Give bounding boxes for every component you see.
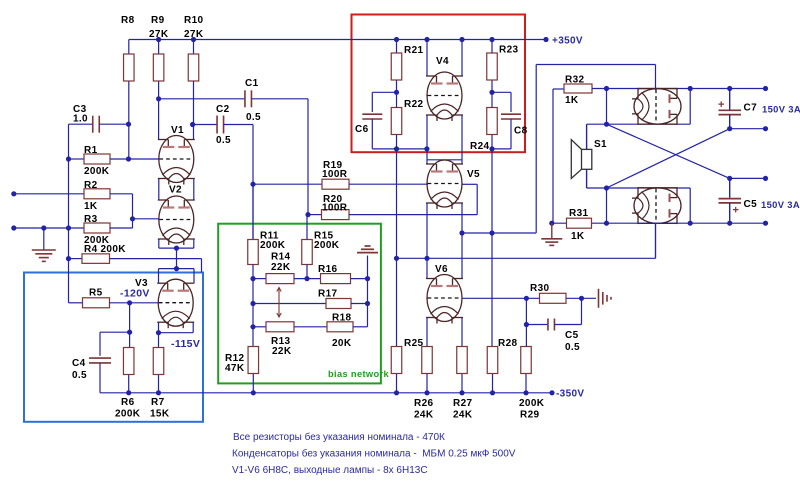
svg-text:R3: R3: [84, 214, 98, 225]
capacitor C1 plates: [244, 90, 246, 107]
resistor R22 body: [391, 108, 402, 135]
node R19 left / C2: [250, 182, 255, 187]
resistor R17 body: [326, 299, 351, 309]
wire R19 right to V5 grid: [349, 183, 428, 185]
svg-text:C5: C5: [744, 199, 758, 210]
wire R28 bottom lead: [492, 374, 494, 393]
wire lower grid exit: [655, 223, 657, 258]
node R24 net cross: [489, 230, 494, 235]
resistor R31 body: [567, 218, 592, 228]
node R12 bottom: [251, 390, 256, 395]
svg-text:+: +: [733, 205, 740, 217]
wire V5 anode junction line: [427, 159, 462, 161]
svg-text:R9: R9: [151, 15, 165, 26]
svg-text:15K: 15K: [150, 409, 170, 420]
resistor R19 body: [322, 179, 349, 189]
svg-text:R2: R2: [84, 180, 98, 191]
wire V3 top rails: [158, 269, 160, 284]
wire R14 left: [253, 278, 266, 280]
resistor R21 body: [391, 53, 402, 80]
node X bottom-left: [604, 185, 609, 190]
capacitor C7: [718, 89, 741, 129]
wire R11 bottom: [252, 265, 254, 279]
svg-text:C7: C7: [744, 103, 758, 114]
node anode bottom: [688, 221, 693, 226]
wire R30 left vertical: [525, 298, 527, 346]
svg-text:200K: 200K: [260, 240, 286, 251]
svg-text:1K: 1K: [565, 95, 579, 106]
wire R23 top: [491, 40, 493, 54]
resistor R16 body: [321, 274, 351, 284]
svg-text:24K: 24K: [414, 410, 434, 421]
node R30 right: [579, 296, 584, 301]
svg-text:-120V: -120V: [120, 288, 150, 300]
svg-text:R24: R24: [470, 141, 489, 152]
resistor R1 body: [84, 154, 110, 164]
node R5 right: [127, 300, 132, 305]
wire X diagonal 1: [607, 124, 730, 178]
wire speaker bottom vert: [606, 188, 608, 223]
svg-text:R30: R30: [530, 283, 549, 294]
wire R5 node vertical: [129, 303, 131, 348]
resistor R4 body: [82, 254, 110, 264]
wire V2-V3 link: [176, 248, 178, 269]
svg-text:V1-V6 6Н8С, выходные лампы - 8: V1-V6 6Н8С, выходные лампы - 8х 6Н13С: [232, 465, 428, 476]
svg-text:C1: C1: [245, 78, 259, 89]
wire R7 bottom: [158, 375, 160, 393]
svg-text:+350V: +350V: [552, 36, 583, 47]
node R20 left / C1: [305, 212, 310, 217]
resistor R10 body: [188, 54, 199, 81]
resistor R6 body: [123, 348, 134, 375]
wire R5 right to V3 grid: [110, 302, 159, 304]
ground input: [43, 228, 45, 250]
node R24 bottom: [489, 146, 494, 151]
svg-text:V2: V2: [169, 185, 182, 196]
resistor R18 body: [327, 322, 353, 332]
node R7 bottom: [156, 390, 161, 395]
node C7 top: [727, 86, 732, 91]
svg-text:0.5: 0.5: [565, 342, 580, 353]
node V4 right rail top: [459, 37, 464, 42]
svg-text:27K: 27K: [184, 29, 204, 40]
wire R1 right to V1 grid: [110, 158, 159, 160]
wire R10 bottom lead: [193, 82, 195, 140]
wire C8 bottom: [510, 119, 512, 149]
svg-text:0.5: 0.5: [216, 135, 231, 146]
wire C6 top jog: [372, 91, 396, 93]
wire V4 top rails: [426, 40, 428, 77]
wire V6 bottom rails: [426, 318, 428, 347]
wire R22 bottom: [396, 135, 398, 149]
node R10 top: [191, 37, 196, 42]
resistor R8 body: [124, 54, 135, 81]
tube V1: [158, 136, 195, 185]
svg-text:R31: R31: [569, 208, 588, 219]
svg-text:R7: R7: [151, 397, 165, 408]
node C5out top: [727, 176, 732, 181]
resistor R30 body: [540, 293, 567, 303]
wire V4-V5 ladder: [426, 115, 428, 164]
node C2/R10: [190, 122, 195, 127]
wire R24 bottom: [491, 135, 493, 149]
svg-text:1.0: 1.0: [73, 114, 88, 125]
resistor R12 body: [248, 347, 258, 374]
wire V1-V2 ladder right: [193, 179, 195, 201]
node V2 cathode: [174, 246, 179, 251]
svg-text:100R: 100R: [322, 202, 348, 213]
node anode top: [688, 86, 693, 91]
wire bias vertical R13 leg: [252, 279, 254, 347]
tube V4: [426, 72, 463, 121]
capacitor C5 plates: [547, 319, 549, 331]
terminal -350V: [549, 390, 554, 395]
terminal input 1: [11, 191, 16, 196]
wire R15 bottom: [306, 265, 308, 279]
green box bias network: [218, 224, 381, 384]
wire C6 bottom: [371, 119, 373, 149]
svg-text:0.5: 0.5: [72, 370, 87, 381]
wire upper drive: [462, 232, 536, 234]
svg-text:0.5: 0.5: [246, 112, 261, 123]
wire R17 right: [351, 303, 368, 305]
svg-text:R23: R23: [499, 45, 518, 56]
node left ladder y258 tap: [424, 256, 429, 261]
svg-text:R22: R22: [404, 99, 423, 110]
wire lower anode right: [689, 188, 691, 223]
node V4 left rail top: [424, 37, 429, 42]
node C1 tap on R9 lead: [156, 96, 161, 101]
node R15/R14/R16: [304, 276, 309, 281]
wire out line2: [730, 128, 766, 130]
capacitor C4 plates: [89, 357, 111, 359]
node R23/R24 C8 tap: [489, 90, 494, 95]
svg-text:Конденсаторы без указания номи: Конденсаторы без указания номинала - МБМ…: [232, 448, 516, 460]
svg-text:47K: 47K: [225, 363, 245, 374]
svg-text:R26: R26: [414, 398, 433, 409]
svg-text:27K: 27K: [149, 29, 169, 40]
wire bottom rail right: [552, 222, 766, 224]
wire V6 grid right: [462, 297, 540, 299]
resistor R13 body: [266, 322, 294, 332]
wire C2 right: [224, 124, 253, 126]
terminal out2: [763, 126, 768, 131]
wire R2 right: [110, 193, 133, 195]
svg-text:R10: R10: [184, 15, 203, 26]
terminal out3: [763, 176, 768, 181]
node C5out bottom: [727, 221, 732, 226]
svg-text:V5: V5: [467, 169, 480, 180]
wire V2 cathode junction: [159, 247, 194, 249]
ground bias network: [365, 245, 371, 247]
wire C8 top jog: [492, 91, 511, 93]
wire C5 right: [555, 324, 582, 326]
wire R1 left: [69, 158, 85, 160]
resistor R5 body: [83, 298, 110, 308]
wire top rail right: [592, 88, 766, 90]
red box around V4 stage: [352, 15, 526, 153]
wire R11 vertical top: [252, 184, 254, 239]
node R13 left: [250, 324, 255, 329]
node C4 line: [127, 330, 132, 335]
svg-text:R5: R5: [89, 288, 103, 299]
node right ladder y233 tap: [459, 230, 464, 235]
resistor R11 body: [248, 240, 259, 265]
node R17 right: [365, 301, 370, 306]
svg-text:R18: R18: [332, 313, 351, 324]
wire lower tube top line: [587, 187, 691, 189]
node R1 left: [66, 156, 71, 161]
svg-text:Все резисторы без указания ном: Все резисторы без указания номинала - 47…: [233, 431, 445, 443]
wire -350V rail: [100, 392, 552, 394]
svg-text:R21: R21: [404, 45, 423, 56]
wire C5 left: [526, 324, 548, 326]
wire C1 right: [252, 98, 308, 100]
node V3 anode: [174, 266, 179, 271]
svg-text:S1: S1: [594, 139, 607, 150]
svg-text:C2: C2: [216, 104, 230, 115]
svg-text:100R: 100R: [322, 169, 348, 180]
wire upper grid entry: [655, 89, 657, 90]
node C7 bottom: [727, 126, 732, 131]
svg-text:20K: 20K: [332, 338, 352, 349]
svg-text:R8: R8: [121, 15, 135, 26]
svg-text:R1: R1: [84, 145, 98, 156]
svg-text:R29: R29: [520, 410, 539, 421]
wire V2 grid: [133, 218, 160, 220]
resistor R28 body: [487, 347, 498, 374]
svg-text:C5: C5: [565, 330, 579, 341]
node R31 right: [604, 221, 609, 226]
svg-text:bias network: bias network: [328, 369, 390, 379]
tube output tube upper: [632, 88, 681, 125]
node R28 bottom: [490, 390, 495, 395]
node R4 left: [66, 256, 71, 261]
wire V3 bottom rails: [158, 322, 160, 347]
node R32 right: [604, 86, 609, 91]
wire C2 vertical to R11: [252, 125, 254, 240]
wire R25 bottom lead: [396, 374, 398, 393]
svg-text:R25: R25: [404, 338, 423, 349]
node V3 cathode / R7: [156, 330, 161, 335]
wire R6 bottom: [128, 375, 130, 393]
wire R17 left: [253, 303, 326, 305]
resistor R27 body: [457, 347, 468, 374]
svg-text:R32: R32: [565, 75, 584, 86]
ground output stage: [551, 223, 553, 238]
wire R13 right: [294, 326, 327, 328]
wire V3 cathode junction: [159, 332, 194, 334]
node C3/R8: [126, 122, 131, 127]
svg-text:200K: 200K: [314, 240, 340, 251]
wire C2 left: [193, 124, 217, 126]
wire R15 top: [306, 215, 308, 240]
node V2 grid: [130, 216, 135, 221]
svg-text:22K: 22K: [272, 346, 292, 357]
wire R14 right: [294, 278, 321, 280]
svg-text:+: +: [718, 99, 725, 111]
node X top-left: [604, 122, 609, 127]
node R31 ground: [549, 221, 554, 226]
wire R32 left: [553, 88, 564, 90]
node R27 bottom: [459, 390, 464, 395]
tube V3: [157, 279, 194, 328]
node R3 left bus: [66, 225, 71, 230]
resistor R2 body: [84, 189, 110, 199]
wire R12 bottom: [252, 374, 254, 393]
ground R30 sideways: [598, 289, 600, 308]
svg-text:-115V: -115V: [171, 338, 200, 350]
wire R9 top lead: [158, 40, 160, 55]
wire R8 bottom lead to grid line: [128, 82, 130, 160]
wire R21-R22: [396, 81, 398, 108]
node R22 bottom: [394, 146, 399, 151]
wire lower drive: [397, 257, 656, 259]
wire R4 left: [69, 258, 83, 260]
wire top tube bottom line: [587, 123, 691, 125]
speaker S1: [571, 124, 592, 188]
node R23 top: [489, 37, 494, 42]
svg-text:V4: V4: [436, 56, 449, 67]
svg-text:200K: 200K: [115, 409, 141, 420]
node C5 left: [524, 322, 529, 327]
resistor R29 body: [521, 347, 532, 374]
wire R19 left: [253, 183, 322, 185]
capacitor C8 plates: [501, 113, 521, 115]
capacitor C2 plates: [216, 116, 218, 134]
resistor R25 body: [391, 347, 402, 374]
node R26 bottom: [424, 390, 429, 395]
node R9 top: [156, 37, 161, 42]
wire R27 bottom lead: [461, 374, 463, 393]
wire R2 left: [14, 193, 84, 195]
wire R20 left: [308, 214, 322, 216]
wire C4 bottom: [99, 363, 101, 393]
svg-text:R16: R16: [318, 264, 337, 275]
wire R9 bottom lead: [158, 82, 160, 140]
node ground tap: [41, 225, 46, 230]
blue box around V3 stage: [24, 273, 203, 422]
wire R23-R24: [491, 81, 493, 108]
terminal out4: [763, 221, 768, 226]
node R17 left: [250, 301, 255, 306]
svg-text:R14: R14: [271, 252, 290, 263]
resistor R7 body: [153, 348, 164, 375]
svg-text:1K: 1K: [84, 201, 98, 212]
svg-text:R17: R17: [318, 289, 337, 300]
svg-text:C6: C6: [355, 124, 369, 135]
wire R30 right: [566, 297, 596, 299]
wire R3 left: [14, 227, 84, 229]
svg-text:22K: 22K: [271, 262, 291, 273]
wire R4 right: [110, 258, 202, 260]
svg-text:R4: R4: [84, 244, 98, 255]
tube V5: [426, 160, 463, 209]
wire R26 bottom lead: [426, 374, 428, 393]
wire R21 top: [396, 40, 398, 54]
wire V3 anode junction: [159, 268, 195, 270]
wire speaker top feed: [606, 89, 608, 125]
svg-text:150V 3А: 150V 3А: [762, 104, 800, 115]
potentiometer wiper arrow R14-R13: [278, 288, 280, 318]
wire C4 top: [99, 332, 101, 356]
node R25 top / R22 net: [394, 256, 399, 261]
node R16 right: [365, 276, 370, 281]
capacitor C5 output: [719, 178, 742, 223]
wire R22 bottom vertical to R25: [396, 149, 398, 347]
node R30 left: [524, 296, 529, 301]
resistor R9 body: [153, 54, 164, 81]
resistor R32 body: [564, 84, 592, 93]
wire R13 left: [253, 326, 266, 328]
wire V2 bottom rails: [158, 239, 160, 248]
node R8/V1 grid: [126, 156, 131, 161]
svg-text:200K: 200K: [84, 166, 110, 177]
tube output tube lower: [632, 187, 681, 224]
node R25 bottom: [394, 390, 399, 395]
wire R8 top lead: [128, 40, 130, 55]
wire R16 right: [351, 278, 368, 280]
resistor R15 body: [302, 240, 313, 265]
node R21 top: [394, 37, 399, 42]
svg-text:R28: R28: [498, 338, 517, 349]
node R29 bottom: [523, 390, 528, 395]
terminal out1: [763, 86, 768, 91]
wire out line3: [730, 177, 766, 179]
wire C3 left: [69, 123, 93, 125]
wire R3 right: [110, 227, 133, 229]
resistor R14 body: [266, 274, 294, 284]
wire X diagonal 2: [607, 129, 730, 188]
terminal +350V: [543, 37, 548, 42]
wire C3 right: [99, 123, 128, 125]
resistor R23 body: [487, 53, 498, 80]
wire C1 left: [159, 98, 245, 100]
resistor R20 body: [322, 210, 350, 220]
wire left bus vertical: [68, 124, 70, 303]
wire C1 to R20 vertical: [307, 99, 309, 215]
tube V2: [158, 196, 195, 245]
svg-text:200K: 200K: [519, 398, 545, 409]
resistor R3 body: [84, 223, 110, 233]
svg-text:V6: V6: [435, 264, 448, 275]
svg-text:200K: 200K: [101, 244, 127, 255]
svg-text:R6: R6: [121, 397, 135, 408]
wire R10 top lead: [193, 40, 195, 55]
terminal input 2: [11, 225, 16, 230]
wire V1-V2 ladder left: [158, 179, 160, 201]
node R11/R14: [250, 276, 255, 281]
capacitor C6 plates: [362, 113, 382, 115]
wire R29 bottom lead: [525, 374, 527, 393]
resistor R24 body: [487, 108, 498, 135]
svg-text:24K: 24K: [453, 410, 473, 421]
wire V5-V6 ladder: [426, 203, 428, 279]
svg-text:1K: 1K: [571, 231, 585, 242]
svg-text:R27: R27: [453, 398, 472, 409]
svg-text:-350V: -350V: [556, 389, 584, 400]
wire R20 right jog to V5 right grid: [349, 214, 477, 216]
svg-text:V1: V1: [171, 125, 184, 136]
wire R24 vertical to R28: [491, 149, 493, 347]
svg-text:C8: C8: [514, 126, 528, 137]
node ladder left tap: [424, 146, 429, 151]
svg-text:150V 3А: 150V 3А: [761, 199, 800, 210]
wire +350V rail: [129, 39, 546, 41]
wire top tube anode right: [689, 89, 691, 125]
wire R18 right jog: [353, 326, 368, 328]
capacitor C3 plates: [92, 116, 94, 133]
